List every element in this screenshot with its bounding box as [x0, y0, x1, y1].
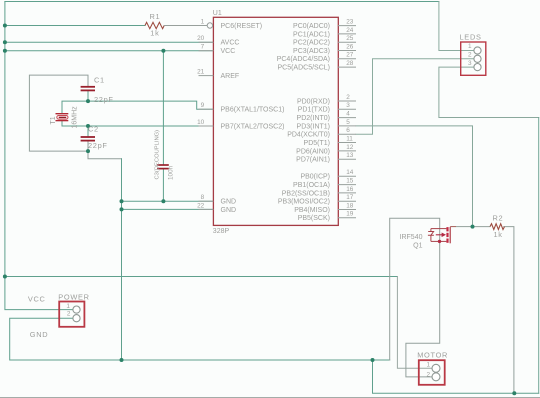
connector POWER	[28, 292, 90, 339]
svg-text:C1: C1	[94, 75, 105, 84]
wire XTAL2 net to pin10	[62, 122, 213, 137]
svg-text:11: 11	[346, 135, 353, 142]
svg-text:9: 9	[201, 102, 205, 109]
svg-text:28: 28	[346, 60, 354, 67]
svg-text:3: 3	[346, 102, 350, 109]
wire GND jog from C2 to GND column	[88, 151, 122, 159]
svg-text:19: 19	[346, 211, 354, 218]
svg-text:328P: 328P	[213, 228, 230, 235]
svg-text:PD4(XCK/T0): PD4(XCK/T0)	[287, 132, 330, 139]
svg-text:1k: 1k	[494, 230, 503, 239]
wire VCC rail to MOTOR pin1	[5, 276, 398, 278]
U1 left pin stubs	[199, 42, 214, 209]
svg-text:2: 2	[346, 94, 350, 101]
svg-text:2: 2	[468, 52, 472, 59]
svg-text:14: 14	[346, 169, 354, 176]
connector MOTOR	[417, 350, 448, 384]
svg-text:1: 1	[66, 303, 70, 310]
U1 right pin labels	[277, 23, 330, 222]
wire C3 decoupling vertical	[162, 51, 164, 202]
wire PD3 pin5 to gate junction	[356, 126, 473, 227]
svg-text:1: 1	[468, 43, 472, 50]
svg-text:Q1: Q1	[413, 243, 422, 250]
svg-text:8: 8	[201, 194, 205, 201]
capacitor C2	[81, 124, 108, 150]
svg-text:C2: C2	[88, 124, 99, 133]
svg-text:PC0(ADC0): PC0(ADC0)	[293, 23, 330, 30]
svg-text:PB1(OC1A): PB1(OC1A)	[293, 182, 330, 189]
svg-text:PD3(INT1): PD3(INT1)	[297, 123, 330, 130]
connector LEDS	[460, 33, 486, 76]
wire PD4 pin6 to LEDS pin2	[356, 59, 474, 134]
wire GND rail down to bottom rail	[373, 360, 539, 393]
svg-text:27: 27	[346, 52, 354, 59]
capacitor C1	[81, 75, 114, 104]
wire crystal cap ground loop	[29, 75, 88, 151]
svg-text:T1: T1	[50, 116, 57, 124]
svg-text:PC2(ADC2): PC2(ADC2)	[293, 40, 330, 47]
svg-text:MOTOR: MOTOR	[417, 350, 448, 359]
svg-text:PB5(SCK): PB5(SCK)	[298, 215, 330, 222]
svg-text:15: 15	[346, 178, 354, 185]
svg-text:2: 2	[426, 371, 430, 378]
wire VCC pin7	[5, 50, 214, 52]
svg-text:2: 2	[67, 311, 71, 318]
bottom image border	[0, 397, 540, 398]
svg-text:PD5(T1): PD5(T1)	[304, 140, 330, 147]
svg-text:PC4(ADC4/SDA): PC4(ADC4/SDA)	[277, 56, 330, 63]
wire POWER pin2 to GND rail	[10, 318, 390, 360]
svg-text:24: 24	[346, 27, 354, 34]
wire LEDS pin3 to right edge GND	[439, 67, 539, 117]
svg-text:100n: 100n	[167, 165, 174, 180]
svg-text:6: 6	[346, 127, 350, 134]
svg-text:10: 10	[197, 119, 205, 126]
svg-text:22pF: 22pF	[94, 95, 114, 104]
svg-text:R2: R2	[493, 214, 504, 223]
svg-text:17: 17	[346, 194, 354, 201]
svg-text:LEDS: LEDS	[460, 33, 482, 42]
svg-text:13: 13	[346, 152, 354, 159]
IC U1 ATmega328P	[213, 10, 338, 235]
svg-text:16MHz: 16MHz	[71, 106, 78, 129]
svg-text:GND: GND	[30, 330, 49, 339]
wire XTAL1 net to pin9	[62, 91, 213, 113]
svg-text:7: 7	[201, 44, 205, 51]
svg-text:POWER: POWER	[58, 292, 89, 301]
svg-text:VCC: VCC	[221, 48, 236, 55]
svg-text:PC6(RESET): PC6(RESET)	[221, 23, 263, 30]
svg-text:VCC: VCC	[28, 295, 46, 304]
svg-text:3: 3	[468, 60, 472, 67]
U1 right pin stubs	[338, 26, 356, 218]
svg-text:22: 22	[197, 202, 205, 209]
svg-text:5: 5	[346, 119, 350, 126]
svg-text:AREF: AREF	[221, 73, 240, 80]
svg-text:23: 23	[346, 19, 354, 26]
wire AVCC pin20	[5, 41, 214, 43]
svg-text:1: 1	[426, 362, 430, 369]
svg-text:21: 21	[197, 69, 205, 76]
U1 left pin numbers	[197, 18, 205, 209]
svg-text:12: 12	[346, 144, 354, 151]
svg-text:R1: R1	[150, 12, 161, 21]
svg-text:PB0(ICP): PB0(ICP)	[300, 174, 330, 181]
crystal T1 16MHz	[50, 106, 78, 129]
wire GND pin22	[122, 208, 214, 210]
svg-text:25: 25	[346, 35, 354, 42]
svg-text:26: 26	[346, 43, 354, 50]
svg-text:PD2(INT0): PD2(INT0)	[297, 115, 330, 122]
wire GND pin8	[122, 200, 214, 202]
resistor R2	[490, 214, 504, 239]
svg-text:GND: GND	[221, 207, 237, 214]
transistor Q1 IRF540 MOSFET	[400, 227, 471, 250]
svg-text:PB3(MOSI/OC2): PB3(MOSI/OC2)	[278, 199, 330, 206]
svg-text:PB2(SS/OC1B): PB2(SS/OC1B)	[282, 190, 330, 197]
svg-text:C3(DECOUPLING): C3(DECOUPLING)	[154, 130, 160, 180]
U1 pin1 inversion bubble	[207, 23, 212, 28]
svg-text:1k: 1k	[150, 29, 159, 38]
wire GND loop to MOSFET source top	[390, 218, 440, 377]
wire R2 right to bottom GND rail	[504, 227, 514, 394]
svg-text:PB7(XTAL2/TOSC2): PB7(XTAL2/TOSC2)	[221, 123, 285, 130]
svg-text:4: 4	[346, 111, 350, 118]
capacitor C3 decoupling	[154, 130, 174, 180]
svg-text:PD0(RXD): PD0(RXD)	[297, 98, 330, 105]
svg-text:1: 1	[201, 18, 205, 25]
wire VCC left vertical	[5, 2, 73, 310]
svg-text:18: 18	[346, 202, 354, 209]
svg-text:AVCC: AVCC	[221, 40, 240, 47]
U1 left pin labels	[221, 23, 285, 214]
svg-text:16: 16	[346, 186, 354, 193]
wire RESET rail to R1	[5, 25, 145, 27]
svg-text:20: 20	[197, 35, 205, 42]
svg-text:PB6(XTAL1/TOSC1): PB6(XTAL1/TOSC1)	[221, 107, 285, 114]
svg-text:PD6(AIN0): PD6(AIN0)	[296, 148, 330, 155]
svg-text:PB4(MISO): PB4(MISO)	[294, 207, 330, 214]
wire VCC top rail to LEDS pin1	[5, 1, 439, 3]
wire gate junction to R2	[475, 226, 491, 228]
svg-text:PD7(AIN1): PD7(AIN1)	[296, 157, 330, 164]
svg-text:GND: GND	[221, 199, 237, 206]
U1 right pin numbers	[346, 19, 354, 218]
svg-text:IRF540: IRF540	[400, 234, 423, 241]
svg-text:PC1(ADC1): PC1(ADC1)	[293, 31, 330, 38]
svg-text:PC3(ADC3): PC3(ADC3)	[293, 48, 330, 55]
svg-text:PD1(TXD): PD1(TXD)	[298, 107, 330, 114]
svg-text:U1: U1	[213, 10, 222, 17]
resistor R1	[145, 12, 207, 38]
svg-text:PC5(ADC5/SCL): PC5(ADC5/SCL)	[277, 65, 330, 72]
svg-text:22pF: 22pF	[88, 141, 108, 150]
